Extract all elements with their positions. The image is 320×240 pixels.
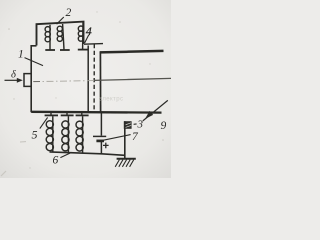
ground bar	[117, 158, 136, 160]
bottom pole bar B1	[45, 114, 58, 116]
pointer line for 7	[100, 135, 130, 141]
coil box (top winding housing)	[37, 22, 84, 46]
arrowhead on 9 pointer	[145, 111, 153, 119]
bottom pole bar B2	[61, 114, 74, 116]
ground hatching	[115, 160, 134, 167]
bottom pole bar B3	[76, 114, 89, 116]
pointer line for 4	[85, 35, 89, 43]
pointer line for 6	[60, 152, 71, 157]
top pole bar P1	[45, 49, 55, 51]
svg-text:2: 2	[66, 7, 72, 19]
battery top lead	[100, 113, 102, 136]
bottom coil W6	[76, 116, 83, 153]
svg-text:электрс: электрс	[99, 97, 123, 103]
battery long plate	[93, 135, 106, 137]
battery bottom lead	[100, 142, 102, 154]
main box bottom edge + rail bottom thick line	[31, 111, 161, 114]
axis first dash (darker)	[34, 81, 41, 83]
top coil W2	[57, 24, 64, 50]
axis center line (faint inside box)	[33, 81, 94, 82]
brush block 3	[124, 121, 132, 129]
svg-text:9: 9	[161, 120, 167, 132]
pointer line for 2	[57, 17, 64, 24]
svg-text:1: 1	[18, 49, 24, 61]
main box (magnet core 1)	[31, 46, 36, 112]
arrow delta (air gap)	[5, 79, 18, 81]
brush stem wire	[124, 121, 126, 158]
battery short plate	[96, 140, 104, 143]
pointer line for 5	[40, 117, 48, 128]
pointer line for 1	[25, 58, 44, 66]
bottom bus wire	[50, 152, 125, 155]
svg-text:4: 4	[86, 24, 92, 38]
armature top thick line	[100, 51, 164, 53]
paper background	[0, 0, 171, 178]
axis center line (outside, to right edge)	[94, 78, 171, 80]
armature left edge	[99, 52, 101, 112]
bottom pole stub S2	[66, 113, 68, 115]
main box top edge right segment	[84, 43, 103, 46]
bottom coil W5	[62, 116, 69, 152]
bottom pole stub S1	[50, 113, 52, 115]
top coil W1	[45, 25, 50, 50]
plus sign	[103, 143, 109, 149]
bottom coil W4	[46, 116, 53, 152]
air-gap bracket on left edge	[24, 74, 31, 87]
faint smudge left	[20, 141, 26, 143]
top pole bar P2	[60, 49, 70, 51]
main box right edge	[87, 46, 89, 113]
svg-text:3: 3	[137, 119, 144, 131]
pointer line for 9	[143, 100, 168, 121]
paper speckles	[8, 28, 10, 30]
svg-text:5: 5	[32, 128, 38, 142]
dash before 3	[134, 123, 137, 125]
dashed boundary line	[93, 44, 95, 113]
svg-text:6: 6	[53, 155, 59, 167]
top coil W3	[78, 23, 83, 50]
bottom pole stub S3	[81, 113, 83, 115]
faint corner mark	[1, 171, 6, 176]
top pole bar P3	[78, 49, 88, 51]
